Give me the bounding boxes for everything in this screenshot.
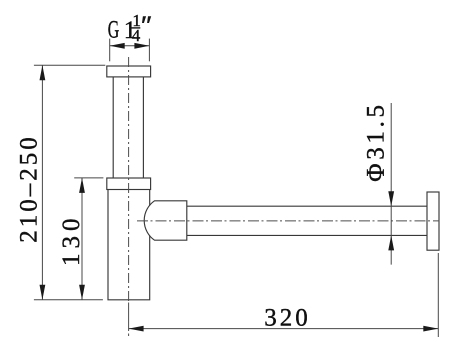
horizontal outlet pipe (187, 205, 427, 207)
dim 320 line (129, 328, 439, 330)
dim 210-250 arrow down (40, 285, 46, 300)
dim G1-1/4 arrow right (134, 43, 149, 49)
dim 130 arrow up (79, 178, 85, 193)
double prime mark (142, 16, 146, 23)
vertical centerline lower extension (128, 303, 130, 337)
svg-text:G: G (108, 16, 120, 43)
dim 320 arrow left (129, 326, 144, 332)
dim 210-250 line (41, 65, 43, 300)
dim 210-250 arrow up (40, 65, 46, 80)
svg-text:320: 320 (264, 305, 311, 332)
dim 130 arrow down (79, 285, 85, 300)
dim 320 arrow right (423, 326, 438, 332)
vertical inlet pipe (112, 77, 114, 178)
dim bottom shared extension line (34, 299, 103, 301)
dim phi31.5 line (390, 103, 392, 265)
dim 130 line (81, 178, 83, 300)
coupling nut on horizontal pipe (144, 201, 187, 240)
svg-text:4: 4 (132, 26, 141, 45)
dim G1-1/4 line (110, 45, 150, 47)
svg-text:130: 130 (58, 214, 85, 266)
dim G1-1/4 right extension line (148, 39, 150, 62)
dim G1-1/4 left extension line (109, 39, 111, 62)
horizontal centerline (137, 220, 440, 222)
svg-text:Φ31.5: Φ31.5 (363, 101, 390, 182)
dim phi31.5 arrow down (388, 191, 394, 206)
bottle body (108, 190, 150, 300)
dim 320 right extension line (437, 253, 439, 337)
bottle body cap (107, 178, 151, 190)
fraction bar (131, 27, 140, 29)
vertical centerline (128, 57, 130, 301)
dim G1-1/4 arrow left (110, 43, 125, 49)
dim 210-250 top extension line (34, 64, 105, 66)
bottle trap top flange (107, 66, 151, 77)
svg-text:210–250: 210–250 (16, 134, 43, 243)
dim 130 top extension line (74, 177, 103, 179)
wall flange (right end) (427, 192, 439, 250)
dim phi31.5 arrow up (388, 235, 394, 250)
